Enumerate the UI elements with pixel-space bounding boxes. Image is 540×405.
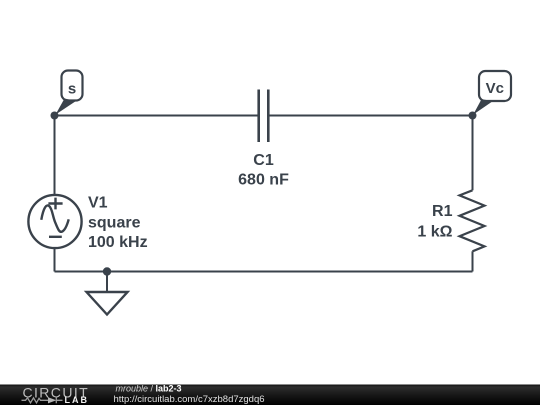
svg-text:LAB: LAB <box>65 395 90 405</box>
wire R1 bottom to bottom rail <box>472 251 474 271</box>
svg-text:680 nF: 680 nF <box>238 172 289 189</box>
node Vc junction dot <box>469 112 477 120</box>
ground <box>87 292 128 315</box>
CircuitLab logo wordmark <box>23 384 90 404</box>
footer title text <box>116 384 182 394</box>
svg-text:mrouble / lab2-3: mrouble / lab2-3 <box>116 384 182 394</box>
svg-text:R1: R1 <box>432 203 453 220</box>
node s junction dot <box>51 112 59 120</box>
resistor R1 labels <box>417 203 452 240</box>
capacitor C1 labels <box>238 152 289 189</box>
node label Vc <box>473 71 511 115</box>
wire right vertical (node Vc to R1 top) <box>472 116 474 191</box>
voltage source V1 labels <box>88 195 148 252</box>
wire bottom rail <box>55 271 473 273</box>
logo resistor-diode glyph <box>22 397 63 403</box>
svg-text:http://circuitlab.com/c7xzb8d7: http://circuitlab.com/c7xzb8d7zgdq6 <box>114 394 265 405</box>
svg-text:100 kHz: 100 kHz <box>88 234 148 251</box>
wire V1 bottom to bottom rail <box>54 248 56 272</box>
svg-text:V1: V1 <box>88 195 108 212</box>
wire top-left (node s to C1 left plate) <box>55 115 259 117</box>
footer bar <box>0 385 540 405</box>
wire ground stem <box>106 272 108 293</box>
svg-text:Vc: Vc <box>486 80 504 97</box>
wire top-right (C1 right plate to node Vc) <box>268 115 472 117</box>
svg-text:C1: C1 <box>253 152 274 169</box>
wire left vertical (node s to V1 top) <box>54 116 56 196</box>
node label s <box>56 71 83 115</box>
voltage source V1 <box>28 195 81 248</box>
capacitor C1 <box>259 90 269 143</box>
ground junction dot <box>103 267 111 275</box>
svg-text:square: square <box>88 215 141 232</box>
svg-text:1 kΩ: 1 kΩ <box>417 223 452 240</box>
resistor R1 <box>460 190 485 251</box>
svg-text:s: s <box>68 81 76 98</box>
